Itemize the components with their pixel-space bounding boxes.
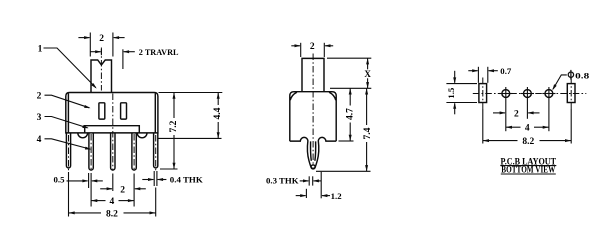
terminal fork inner walls bbox=[311, 141, 316, 160]
pin 1 centerline bbox=[90, 134, 92, 171]
title underline 2 bbox=[501, 173, 556, 175]
pad slot left bbox=[479, 84, 487, 103]
left bend loop bbox=[78, 133, 88, 138]
label 1 leader bbox=[44, 48, 96, 88]
dimension X: text bbox=[363, 69, 372, 79]
dimension 7.2: line bbox=[173, 93, 175, 170]
svg-text:0.5: 0.5 bbox=[54, 175, 66, 185]
side view centerline bbox=[312, 54, 314, 167]
pin 2 bbox=[111, 133, 115, 170]
dimension 4.4: line bbox=[217, 93, 219, 139]
svg-text:2: 2 bbox=[310, 42, 315, 52]
dimension 1.5: extension lines bbox=[446, 83, 477, 85]
travel dimension: extreme position line bbox=[122, 49, 124, 69]
dimension 0.3 THK: arrows bbox=[300, 180, 309, 182]
svg-text:0.7: 0.7 bbox=[500, 66, 512, 76]
dimension 4.7: text bbox=[345, 106, 356, 123]
dimension 2 knob width: extension lines bbox=[89, 33, 91, 57]
tab2 center extension bbox=[155, 188, 157, 217]
right bend loop bbox=[137, 133, 147, 138]
left side tab centerline bbox=[68, 135, 70, 171]
corner fold mark right bbox=[329, 92, 336, 100]
svg-text:2: 2 bbox=[37, 92, 42, 102]
left side tab bbox=[66, 133, 70, 168]
dimension 4.7: line bbox=[349, 88, 351, 141]
pin 2 centerline through body bbox=[112, 94, 114, 171]
dimension X: line bbox=[367, 58, 369, 88]
body side view outline bbox=[290, 92, 336, 141]
svg-text:2 TRAVRL: 2 TRAVRL bbox=[139, 47, 179, 57]
window right bbox=[121, 103, 127, 119]
svg-text:X: X bbox=[364, 69, 371, 79]
svg-text:4.7: 4.7 bbox=[346, 108, 356, 120]
slot1 extension bbox=[482, 109, 484, 144]
pad slot left centerline bbox=[482, 78, 484, 110]
svg-text:4: 4 bbox=[525, 124, 530, 134]
phi 0.8 leader bbox=[553, 75, 567, 89]
svg-text:2: 2 bbox=[99, 34, 104, 44]
svg-text:2: 2 bbox=[514, 109, 519, 119]
svg-text:4.4: 4.4 bbox=[213, 107, 223, 119]
pad hole 2 bbox=[524, 90, 532, 98]
dimension 1.5: text bbox=[446, 87, 456, 99]
dimension 2 pins: right arrow bbox=[135, 188, 146, 190]
dimension 0.4 THK: arrows bbox=[142, 179, 153, 181]
dimension 7.4: text bbox=[362, 125, 373, 142]
dimension 4.4: text bbox=[212, 105, 223, 122]
pin 1 bbox=[89, 133, 93, 170]
svg-text:2: 2 bbox=[120, 185, 125, 195]
dimension 8.2: line and arrows bbox=[69, 212, 102, 214]
window left bbox=[99, 103, 105, 119]
dimension 0.5: arrows bbox=[67, 180, 88, 182]
tab2 edge extensions bbox=[153, 171, 155, 186]
dimension 1.2: extension lines bbox=[305, 189, 307, 198]
dimension 7.2: bottom extension bbox=[160, 168, 178, 170]
knob front view outline bbox=[91, 60, 112, 93]
pad slot right bbox=[567, 84, 575, 103]
dimension 7.4: line bbox=[366, 88, 368, 171]
body front view outline bbox=[66, 93, 158, 133]
pin 3 centerline bbox=[133, 134, 135, 171]
svg-text:3: 3 bbox=[37, 113, 42, 123]
svg-text:1: 1 bbox=[38, 44, 43, 54]
pad hole 3 cross ticks bbox=[548, 87, 550, 100]
body inner right fold line bbox=[154, 93, 156, 133]
dimension 2 pins: left arrow bbox=[100, 188, 112, 190]
pin3 center extension bbox=[133, 174, 135, 207]
corner fold mark left bbox=[290, 92, 297, 100]
dimension 7.4: bottom extension bbox=[316, 170, 371, 172]
knob side view bbox=[302, 58, 324, 91]
pin1 center extension bbox=[90, 173, 92, 207]
svg-text:4: 4 bbox=[110, 197, 115, 207]
side dimension 2: extension lines bbox=[300, 43, 302, 57]
right side tab centerline bbox=[155, 135, 157, 171]
pad hole 1 cross ticks bbox=[505, 87, 507, 100]
hole1 extension bbox=[505, 100, 507, 131]
dimension 1.5: arrows bbox=[454, 71, 456, 83]
phi 0.8 text bbox=[568, 72, 573, 77]
svg-text:7.2: 7.2 bbox=[169, 120, 179, 132]
hole2 extension bbox=[526, 100, 528, 119]
pad hole 2 cross ticks bbox=[526, 87, 528, 100]
dimension 0.3 THK: ticks bbox=[308, 176, 310, 185]
travel dimension: right arrow bbox=[124, 51, 135, 53]
svg-text:8.2: 8.2 bbox=[106, 210, 118, 220]
body bottom edge with terminal fork bbox=[290, 137, 336, 168]
svg-text:4: 4 bbox=[37, 135, 42, 145]
pcb dimension 4: line and arrows bbox=[506, 126, 521, 128]
pin1 left edge extension bbox=[88, 173, 90, 188]
pcb dimension 2: arrows bbox=[493, 112, 505, 114]
pcb horizontal axis centerline bbox=[473, 93, 587, 95]
travel dimension: left arrow bbox=[90, 51, 100, 53]
base insert bbox=[85, 126, 140, 133]
tab1 center extension bbox=[68, 172, 70, 217]
pad hole 1 bbox=[502, 90, 510, 98]
pad slot right centerline bbox=[570, 78, 572, 110]
terminal tip circle bbox=[311, 165, 315, 169]
knob centerline bbox=[100, 48, 102, 91]
dimension 0.7: extension lines bbox=[477, 67, 479, 83]
knob top extension line bbox=[327, 57, 371, 59]
right side tab bbox=[154, 133, 158, 168]
svg-text:0.3 THK: 0.3 THK bbox=[266, 175, 299, 185]
pin 3 bbox=[132, 133, 136, 170]
svg-text:7.4: 7.4 bbox=[363, 127, 373, 139]
dimension 2 knob width: left arrow bbox=[78, 37, 89, 39]
dimension 7.2: text bbox=[168, 118, 179, 135]
label 2 leader bbox=[45, 95, 90, 108]
title underline 1 bbox=[500, 165, 556, 167]
pad hole 3 bbox=[545, 90, 553, 98]
body inner left fold line bbox=[67, 93, 69, 133]
dimension 1.2: arrows bbox=[296, 195, 306, 197]
dimension 2 knob width: right arrow bbox=[114, 37, 125, 39]
dimension 0.7: arrows bbox=[468, 70, 477, 72]
svg-text:0.8: 0.8 bbox=[575, 70, 590, 80]
svg-text:1.5: 1.5 bbox=[446, 87, 456, 99]
hole3 extension bbox=[548, 100, 550, 131]
dimension 4.4: bottom extension bbox=[159, 137, 222, 139]
label 4 leader bbox=[45, 139, 91, 149]
travel dimension: tick at centerline bbox=[100, 49, 102, 55]
pcb dimension 8.2: line and arrows bbox=[483, 140, 518, 142]
knob base extension line bbox=[330, 87, 371, 89]
side dimension 2: arrows bbox=[291, 45, 300, 47]
dimension 4: line and arrows bbox=[91, 200, 105, 202]
body top extension line right bbox=[159, 92, 223, 94]
svg-text:8.2: 8.2 bbox=[522, 137, 534, 147]
svg-text:1.2: 1.2 bbox=[331, 191, 343, 201]
svg-text:0.4 THK: 0.4 THK bbox=[170, 174, 203, 184]
label 3 leader bbox=[45, 117, 88, 128]
pin2 center extension bbox=[112, 174, 114, 192]
dimension 4.7: bottom extension bbox=[339, 140, 354, 142]
slot2 extension bbox=[570, 109, 572, 144]
